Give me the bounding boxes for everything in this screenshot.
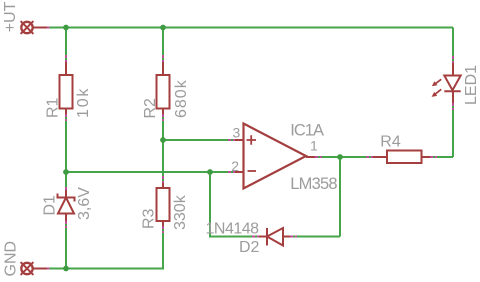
wire GND bottom rail <box>34 268 165 270</box>
R2 value 680k <box>173 79 190 118</box>
junction R2/R3/pin3 node <box>160 137 166 143</box>
R3 label <box>141 208 158 229</box>
diode D2 <box>267 228 283 246</box>
svg-text:+UT: +UT <box>2 1 19 32</box>
R1 value 10k <box>75 87 92 118</box>
svg-text:2: 2 <box>231 158 239 174</box>
wire feedback vertical x=210 down to D2 net <box>210 172 267 237</box>
LED LED1 <box>444 76 460 92</box>
wire op-amp pin2 input (from node at 66,172) <box>66 171 244 173</box>
svg-text:IC1A: IC1A <box>290 122 324 140</box>
wire output node to R4 left pin <box>340 156 387 158</box>
R2 label <box>142 98 159 119</box>
svg-text:R3: R3 <box>141 208 158 229</box>
op-amp - input marker <box>248 170 257 172</box>
op-amp + input marker <box>247 135 257 144</box>
wire left vertical x=66 (R1/D1 column) <box>65 28 67 269</box>
svg-text:LM358: LM358 <box>290 175 337 193</box>
wire op-amp pin3 input (from node at 163,140) <box>163 139 244 141</box>
wire op-amp output pin1 <box>306 156 340 158</box>
wire D2 anode to output vertical x=340 <box>283 157 340 237</box>
svg-text:10k: 10k <box>75 87 92 118</box>
junction at +UT / R1 column <box>63 25 69 31</box>
wire right vertical x=453 (LED column) <box>452 28 454 158</box>
svg-text:3: 3 <box>233 125 241 141</box>
junction at +UT / R2 column <box>160 25 166 31</box>
LED1 emission arrows <box>432 79 442 97</box>
svg-text:330k: 330k <box>172 194 189 230</box>
R3 value 330k <box>172 194 189 230</box>
svg-text:D1: D1 <box>42 195 59 216</box>
resistor R2 <box>157 75 170 109</box>
GND label <box>3 241 20 277</box>
wire middle vertical x=163 (R2/R3 column) <box>162 28 164 269</box>
svg-text:3,6V: 3,6V <box>76 187 93 220</box>
svg-text:GND: GND <box>3 241 20 277</box>
LED1 label <box>463 65 480 105</box>
svg-text:680k: 680k <box>173 79 190 118</box>
node GND terminal symbol <box>21 262 34 275</box>
svg-text:R2: R2 <box>142 98 159 119</box>
R1 label <box>45 97 62 118</box>
svg-text:1: 1 <box>310 138 318 154</box>
node +UT terminal symbol <box>21 21 34 34</box>
junction pin2 / feedback node <box>207 169 213 175</box>
junction R1/D1/pin2 node <box>63 169 69 175</box>
svg-text:1N4148: 1N4148 <box>206 221 260 238</box>
svg-text:R4: R4 <box>380 134 401 151</box>
resistor R3 <box>157 188 170 221</box>
svg-text:D2: D2 <box>239 239 260 256</box>
svg-text:R1: R1 <box>45 97 62 118</box>
wire top +UT rail <box>34 27 454 29</box>
op-amp IC1A <box>244 124 307 189</box>
+UT label <box>2 1 19 32</box>
resistor R4 <box>387 151 422 164</box>
D1 value 3,6V <box>76 187 93 220</box>
junction output node <box>337 154 343 160</box>
svg-text:LED1: LED1 <box>463 65 480 105</box>
junction GND / D1 column <box>63 266 69 272</box>
wire R4 right pin to LED column <box>422 156 454 158</box>
D1 label <box>42 195 59 216</box>
resistor R1 <box>60 75 73 109</box>
zener diode D1 <box>58 194 75 214</box>
